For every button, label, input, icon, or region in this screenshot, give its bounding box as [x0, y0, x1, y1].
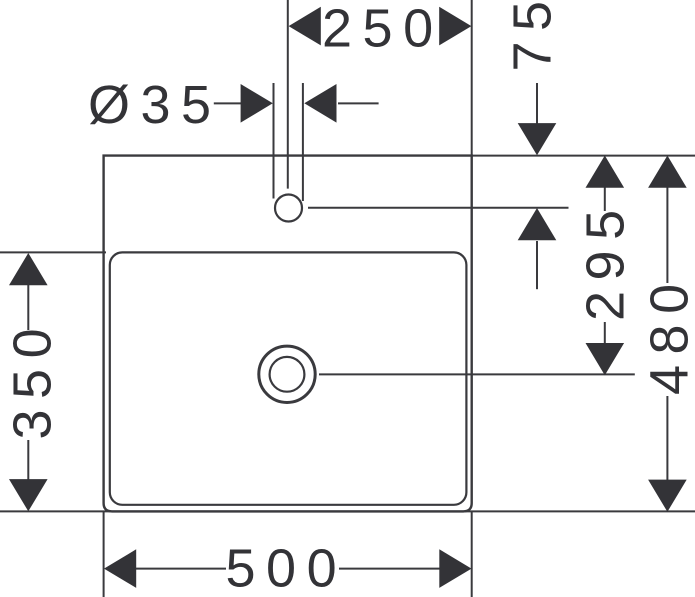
extension line: drain center horizontal	[319, 373, 635, 375]
dimension tail: 295 upper	[604, 187, 606, 211]
dimension tail: 75 below	[536, 241, 538, 289]
basin inner bowl	[110, 252, 467, 504]
drain outer ring	[259, 346, 315, 402]
arrowhead 75 down	[518, 123, 557, 155]
arrowhead 295 bottom	[586, 343, 625, 375]
extension line: hole centerline vertical (250 left)	[287, 0, 289, 189]
arrowhead 295 top	[586, 156, 625, 188]
extension line: basin right edge up to top (250 right)	[471, 0, 473, 156]
arrowhead 500 right	[439, 549, 471, 588]
svg-text:250: 250	[322, 0, 444, 59]
faucet hole	[275, 195, 302, 222]
basin outer rim	[104, 156, 472, 512]
drain inner ring	[270, 357, 305, 392]
dimension tail: 350 lower	[27, 440, 29, 480]
svg-text:350: 350	[3, 318, 63, 440]
svg-text:Ø35: Ø35	[88, 75, 222, 135]
extension line: 500 left vertical below basin	[103, 511, 105, 597]
dimension tail: 350 upper	[27, 285, 29, 331]
arrowhead 500 left	[104, 549, 136, 588]
dimension tail: 500 left	[136, 568, 226, 570]
svg-text:295: 295	[576, 199, 636, 321]
arrowhead 350 top	[9, 253, 48, 285]
dimension tail: 295 lower	[604, 322, 606, 344]
svg-text:480: 480	[640, 273, 695, 395]
arrowhead 480 bottom	[648, 480, 687, 512]
dimension tail: 480 upper	[666, 187, 668, 283]
extension line: hole right tangent (d35)	[302, 83, 304, 201]
arrowhead 250 right	[439, 7, 471, 46]
extension line: inner bowl top extended left	[0, 251, 106, 253]
dimension tail: 500 right	[339, 568, 440, 570]
arrowhead d35 pointing right	[241, 84, 273, 123]
extension line: faucet hole center horizontal	[308, 207, 569, 209]
arrowhead d35 pointing left	[304, 84, 336, 123]
dimension tail: d35 right	[338, 102, 379, 104]
dimension tail: 480 lower	[666, 396, 668, 480]
dimension tail: d35 left	[214, 102, 242, 104]
svg-text:500: 500	[226, 539, 348, 597]
extension line: basin bottom edge extended full width	[0, 510, 695, 512]
arrowhead 480 top	[648, 156, 687, 188]
extension line: basin top edge extended right	[472, 155, 695, 157]
arrowhead 350 bottom	[9, 479, 48, 511]
extension line: hole left tangent (d35)	[273, 83, 275, 199]
extension line: 500 right vertical below basin	[471, 511, 473, 597]
arrowhead 75 up	[518, 208, 557, 240]
svg-text:75: 75	[503, 0, 563, 72]
dimension tail: 75 above	[536, 83, 538, 124]
arrowhead 250 left	[289, 7, 321, 46]
